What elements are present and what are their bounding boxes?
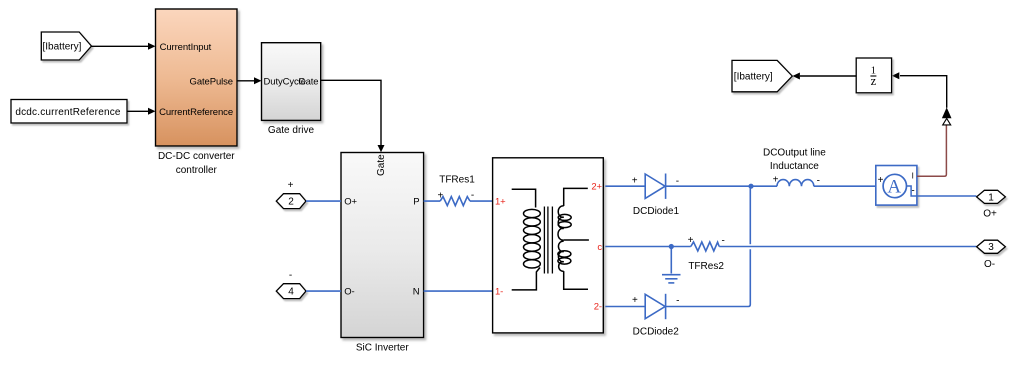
- transformer icon secondary coil bottom: [558, 241, 563, 271]
- svg-text:-: -: [722, 235, 725, 246]
- wire transformer 2+ to DCDiode1: [605, 185, 645, 187]
- svg-text:-: -: [676, 296, 679, 307]
- wire P to TFRes1: [424, 200, 441, 202]
- svg-text:controller: controller: [176, 165, 218, 176]
- inductor DCOutput line Inductance: [777, 180, 814, 187]
- svg-text:dcdc.currentReference: dcdc.currentReference: [15, 107, 121, 118]
- svg-text:O+: O+: [983, 208, 997, 219]
- diode DCDiode1: [645, 174, 665, 199]
- block Gate drive: [262, 43, 321, 121]
- svg-text:Gate: Gate: [376, 154, 387, 176]
- svg-text:1+: 1+: [495, 197, 506, 208]
- svg-text:CurrentReference: CurrentReference: [159, 107, 233, 118]
- svg-text:P: P: [413, 196, 419, 207]
- svg-text:SiC Inverter: SiC Inverter: [356, 342, 409, 353]
- svg-text:-: -: [676, 176, 679, 187]
- diode DCDiode2: [645, 294, 665, 319]
- Goto tag [Ibattery]: [732, 60, 792, 91]
- svg-text:Inductance: Inductance: [770, 161, 819, 172]
- node junction middle: [669, 244, 674, 249]
- From tag [Ibattery]: [41, 32, 91, 60]
- wire port 4 to O-: [306, 290, 341, 292]
- svg-text:+: +: [632, 176, 638, 187]
- port 2: [276, 194, 306, 209]
- current sensor circle A: [883, 174, 906, 197]
- wire transformer 2- to DCDiode2: [605, 306, 645, 308]
- svg-text:[Ibattery]: [Ibattery]: [43, 42, 82, 53]
- wire junction to inductor: [751, 185, 777, 187]
- svg-text:+: +: [437, 191, 443, 202]
- sensor internal output path: [907, 186, 917, 196]
- svg-text:+: +: [288, 180, 294, 191]
- port 1: [977, 190, 1006, 203]
- wire inductor to current sensor: [814, 185, 876, 187]
- svg-text:Gate: Gate: [298, 76, 318, 87]
- node junction top: [748, 184, 753, 189]
- svg-text:GatePulse: GatePulse: [190, 76, 233, 87]
- svg-text:[Ibattery]: [Ibattery]: [734, 72, 773, 83]
- svg-text:O-: O-: [984, 259, 995, 270]
- svg-text:-: -: [289, 270, 292, 281]
- wire port 2 to O+: [306, 200, 341, 202]
- svg-text:-: -: [471, 190, 474, 201]
- port 4: [276, 284, 306, 299]
- svg-text:-: -: [817, 175, 820, 186]
- transformer icon center tap: [564, 239, 589, 241]
- svg-text:DCDiode1: DCDiode1: [633, 206, 680, 217]
- svg-text:I: I: [912, 171, 914, 180]
- connection triangle hollow: [943, 118, 951, 125]
- svg-text:z: z: [871, 74, 877, 88]
- block unit delay 1/z: [856, 58, 891, 93]
- svg-text:DCOutput line: DCOutput line: [763, 147, 826, 158]
- svg-text:3: 3: [988, 242, 994, 253]
- transformer icon primary lead top: [512, 189, 536, 207]
- wire N to transformer 1-: [424, 290, 493, 292]
- svg-text:N: N: [413, 287, 420, 298]
- ground: [662, 248, 681, 283]
- resistor TFRes2: [691, 242, 719, 251]
- svg-text:+: +: [688, 235, 694, 246]
- svg-text:1-: 1-: [495, 287, 503, 298]
- svg-text:+: +: [632, 295, 638, 306]
- svg-text:Gate drive: Gate drive: [268, 125, 315, 136]
- wire TFRes1 to transformer 1+: [470, 200, 493, 202]
- wire DCDiode1 to junction: [666, 185, 751, 187]
- wire Gate drive to SiC Inverter gate: [321, 80, 381, 145]
- wire sensor to port 1: [917, 195, 977, 197]
- svg-text:O+: O+: [344, 196, 357, 207]
- wire constant to CurrentReference: [127, 110, 149, 112]
- svg-text:2-: 2-: [594, 302, 602, 313]
- svg-text:DCDiode2: DCDiode2: [633, 326, 680, 337]
- wire up and to unit delay: [900, 76, 947, 108]
- svg-text:TFRes1: TFRes1: [439, 175, 475, 186]
- wire transformer c to junction2: [605, 246, 691, 248]
- wire TFRes2 to port 3: [719, 246, 976, 248]
- svg-text:+: +: [773, 175, 779, 186]
- transformer icon primary lead bottom: [512, 268, 540, 290]
- wire DCDiode2 up to junction: [666, 249, 751, 306]
- block SiC Inverter: [341, 153, 424, 338]
- transformer icon core: [544, 207, 552, 274]
- svg-text:2+: 2+: [591, 182, 602, 193]
- svg-text:TFRes2: TFRes2: [688, 261, 724, 272]
- svg-text:DC-DC converter: DC-DC converter: [158, 151, 235, 162]
- constant dcdc.currentReference: [11, 100, 127, 124]
- wire sensor I output (physical): [917, 125, 947, 176]
- svg-text:2: 2: [288, 197, 294, 208]
- port 3: [977, 240, 1006, 253]
- resistor TFRes1: [440, 197, 470, 206]
- wire From tag to CurrentInput: [92, 45, 149, 47]
- svg-text:c: c: [597, 242, 602, 253]
- current sensor block: [876, 166, 917, 206]
- wire GatePulse to Gate drive: [237, 80, 255, 82]
- svg-text:1: 1: [988, 192, 994, 203]
- wire unit delay to Goto: [800, 75, 857, 77]
- svg-text:+: +: [878, 175, 884, 186]
- arrowhead up: [942, 107, 952, 118]
- svg-text:4: 4: [288, 287, 294, 298]
- transformer icon secondary coil top: [558, 206, 564, 240]
- transformer icon secondary lead top: [564, 188, 588, 206]
- transformer icon secondary lead bottom: [564, 271, 588, 289]
- svg-text:CurrentInput: CurrentInput: [160, 42, 212, 53]
- transformer icon primary coil: [524, 209, 541, 268]
- svg-text:A: A: [887, 177, 901, 198]
- svg-text:O-: O-: [344, 287, 354, 298]
- block transformer: [493, 158, 604, 333]
- block DC-DC converter controller: [156, 9, 238, 146]
